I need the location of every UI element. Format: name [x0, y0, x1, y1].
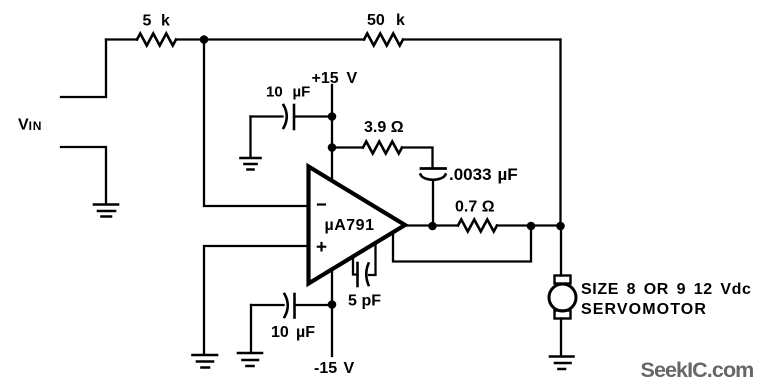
wire C2 to output node — [432, 181, 434, 226]
wire +15V supply — [331, 85, 333, 181]
wire junction A to R2 — [204, 38, 364, 40]
op-amp non-inverting input plus sign — [318, 243, 325, 250]
motor M1 brush top — [555, 276, 571, 284]
ground non-inverting input — [193, 355, 218, 368]
svg-text:µA791: µA791 — [325, 217, 375, 234]
wire C4 to ground — [250, 305, 252, 352]
wire R4 to motor node — [497, 224, 561, 226]
resistor R3 3.9 ohm — [363, 142, 402, 154]
resistor R4 0.7 ohm — [458, 220, 497, 232]
capacitor C3 5 pF leads — [353, 257, 358, 275]
capacitor C2 .0033 uF — [421, 167, 446, 170]
wire motor to ground — [560, 319, 562, 356]
svg-text:+15V: +15V — [312, 70, 358, 87]
resistor R2 50 k — [364, 34, 403, 46]
wire Vin+ stub — [61, 40, 106, 98]
svg-text:SeekIC.com: SeekIC.com — [641, 358, 754, 382]
svg-text:3.9 Ω: 3.9 Ω — [364, 119, 404, 136]
wire top-left input run — [106, 38, 137, 40]
wire Vin- stub — [61, 147, 106, 204]
wire R1 to junction A — [176, 38, 204, 40]
svg-text:SIZE 8 OR 9 12 Vdc: SIZE 8 OR 9 12 Vdc — [581, 281, 752, 298]
wire output — [405, 224, 458, 226]
node D junction dot output/C2 — [428, 222, 437, 231]
node C junction dot +15/R3 — [328, 143, 337, 152]
svg-text:VIN: VIN — [18, 117, 42, 134]
wire C1 left lead — [251, 115, 283, 117]
wire C1 right lead — [295, 115, 333, 117]
svg-text:0.7 Ω: 0.7 Ω — [455, 199, 495, 216]
motor M1 brush bottom — [555, 311, 571, 319]
wire non-inverting input feed — [204, 246, 306, 354]
wire feedback node to motor — [560, 226, 562, 276]
ground motor — [550, 357, 574, 370]
svg-text:-15V: -15V — [314, 360, 355, 377]
node E junction dot R4/sense — [527, 222, 536, 231]
ground C1 — [241, 158, 261, 170]
motor M1 body — [549, 284, 576, 311]
op-amp inverting input minus sign — [318, 203, 325, 205]
node B junction dot +15/C1 — [328, 112, 337, 121]
capacitor C3 5 pF plates — [356, 263, 359, 286]
wire inverting input feed — [204, 40, 306, 207]
wire R3 to C2 — [402, 148, 433, 168]
capacitor C1 10 uF — [284, 105, 287, 128]
resistor R1 5 k — [137, 34, 176, 46]
svg-text:.0033µF: .0033µF — [449, 165, 518, 184]
op-amp U1 uA791 — [309, 167, 406, 284]
wire feedback vertical right — [559, 40, 561, 227]
wire V+ node to R3 — [332, 146, 363, 148]
node F junction dot feedback/motor — [556, 222, 565, 231]
ground C4 — [238, 353, 262, 366]
capacitor C4 10 uF — [285, 294, 288, 317]
node A junction dot — [200, 35, 209, 44]
wire R2 to top-right corner — [403, 38, 561, 40]
ground Vin — [94, 205, 118, 217]
node G junction dot -15/C4 — [328, 300, 337, 309]
wire C1 to ground — [249, 117, 251, 158]
wire C4 left lead — [251, 304, 284, 306]
wire sense loop — [393, 226, 531, 262]
svg-text:SERVOMOTOR: SERVOMOTOR — [581, 301, 707, 318]
wire V- supply — [331, 270, 333, 357]
wire C4 right lead — [295, 304, 332, 306]
svg-text:5pF: 5pF — [348, 293, 381, 310]
